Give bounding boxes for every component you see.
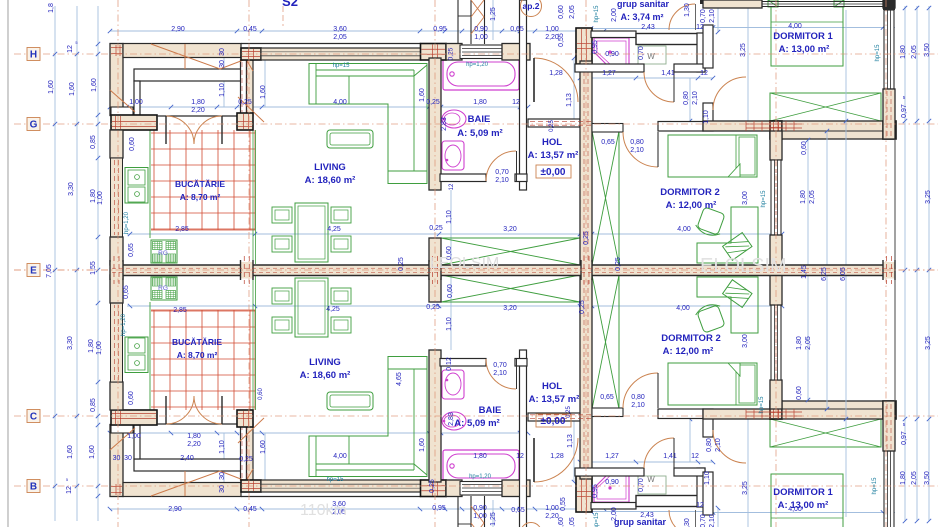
svg-text:2,20: 2,20 [545, 513, 559, 520]
svg-text:2,10: 2,10 [709, 9, 716, 23]
svg-text:2,00: 2,00 [611, 507, 618, 521]
svg-text:A: 12,00 m²: A: 12,00 m² [666, 200, 717, 211]
svg-text:0,60: 0,60 [801, 141, 808, 155]
svg-text:1,10: 1,10 [219, 440, 226, 454]
svg-text:0,90: 0,90 [473, 505, 487, 512]
svg-text:3,25: 3,25 [740, 43, 747, 57]
svg-text:2,05: 2,05 [333, 34, 347, 41]
svg-text:0,80: 0,80 [631, 394, 645, 401]
svg-text:1,80: 1,80 [191, 99, 205, 106]
svg-text:G: G [30, 120, 38, 131]
svg-text:1,00: 1,00 [127, 433, 141, 440]
svg-text:BUCĂTĂRIE: BUCĂTĂRIE [172, 337, 222, 347]
svg-text:0,25: 0,25 [239, 456, 253, 463]
svg-text:1,13: 1,13 [567, 434, 574, 448]
svg-text:3,50: 3,50 [924, 471, 931, 485]
svg-text:3,20: 3,20 [503, 226, 517, 233]
svg-text:0,70: 0,70 [638, 46, 645, 60]
svg-text:1,60: 1,60 [48, 80, 55, 94]
svg-text:1,28: 1,28 [549, 70, 563, 77]
svg-text:1,25: 1,25 [490, 7, 497, 21]
svg-text:2,05: 2,05 [911, 45, 918, 59]
svg-text:2,90: 2,90 [171, 26, 185, 33]
svg-text:0,65: 0,65 [601, 139, 615, 146]
svg-text:1,80: 1,80 [800, 190, 807, 204]
svg-text:0,60: 0,60 [447, 284, 454, 298]
svg-text:1,80: 1,80 [900, 471, 907, 485]
svg-text:3,30: 3,30 [68, 182, 75, 196]
svg-text:±0,00: ±0,00 [541, 416, 566, 427]
svg-text:0,65: 0,65 [600, 394, 614, 401]
svg-text:0,25: 0,25 [448, 47, 455, 60]
svg-text:hp=15: hp=15 [759, 396, 765, 414]
svg-text:1,28: 1,28 [550, 453, 564, 460]
svg-text:RG: RG [158, 285, 168, 292]
svg-text:30: 30 [124, 455, 132, 462]
svg-text:12: 12 [449, 183, 455, 190]
svg-text:0,25: 0,25 [615, 257, 622, 271]
svg-text:12: 12 [696, 502, 704, 509]
svg-text:2,85: 2,85 [175, 226, 189, 233]
svg-text:1,00: 1,00 [473, 513, 487, 520]
svg-text:3,00: 3,00 [742, 191, 749, 205]
svg-text:2,10: 2,10 [715, 438, 722, 452]
svg-text:0,65: 0,65 [123, 285, 130, 299]
svg-text:0,25: 0,25 [238, 99, 252, 106]
svg-text:1,55: 1,55 [90, 261, 97, 275]
svg-text:B: B [30, 482, 37, 493]
svg-text:0,65: 0,65 [510, 26, 524, 33]
svg-text:0,55: 0,55 [558, 33, 565, 47]
svg-text:1,60: 1,60 [67, 445, 74, 459]
svg-text:hp=1,20: hp=1,20 [121, 313, 127, 336]
svg-text:1,10: 1,10 [703, 110, 710, 124]
svg-text:2,10: 2,10 [493, 370, 507, 377]
svg-text:1,60: 1,60 [260, 440, 267, 454]
svg-text:1,60: 1,60 [419, 88, 426, 102]
svg-text:12: 12 [67, 45, 74, 53]
svg-text:7,05: 7,05 [46, 264, 53, 278]
svg-text:E: E [30, 266, 37, 277]
svg-text:0,25: 0,25 [429, 225, 443, 232]
svg-text:3,00: 3,00 [742, 334, 749, 348]
svg-text:RG: RG [158, 250, 168, 257]
svg-text:1,80: 1,80 [473, 453, 487, 460]
svg-text:hp=15: hp=15 [333, 63, 351, 69]
svg-text:12: 12 [66, 486, 73, 494]
svg-text:30: 30 [219, 60, 226, 68]
svg-text:4,00: 4,00 [788, 23, 802, 30]
svg-text:1,00: 1,00 [545, 505, 559, 512]
svg-text:1,80: 1,80 [796, 336, 803, 350]
svg-text:30: 30 [113, 455, 121, 462]
svg-text:0,25: 0,25 [426, 304, 440, 311]
svg-text:0,80: 0,80 [706, 438, 713, 452]
svg-text:0,95: 0,95 [592, 484, 599, 498]
svg-text:3,50: 3,50 [924, 43, 931, 57]
svg-text:DORMITOR 2: DORMITOR 2 [661, 333, 720, 344]
svg-text:hp=15: hp=15 [872, 477, 878, 495]
svg-text:0,60: 0,60 [558, 517, 565, 527]
svg-text:2,90: 2,90 [168, 506, 182, 513]
svg-text:1,27: 1,27 [605, 453, 619, 460]
svg-text:LIVING: LIVING [309, 357, 341, 368]
svg-text:0,55: 0,55 [560, 497, 567, 511]
svg-text:0,90: 0,90 [605, 479, 619, 486]
svg-text:0,70: 0,70 [495, 169, 509, 176]
svg-text:4,65: 4,65 [396, 372, 403, 386]
svg-text:1,80: 1,80 [187, 433, 201, 440]
svg-text:A: 18,60 m²: A: 18,60 m² [300, 370, 351, 381]
svg-text:3,25: 3,25 [742, 481, 749, 495]
svg-text:2,10: 2,10 [709, 514, 716, 527]
svg-text:2,40: 2,40 [180, 455, 194, 462]
svg-text:0,95: 0,95 [592, 40, 599, 54]
svg-text:A: 5,09 m²: A: 5,09 m² [454, 418, 499, 429]
svg-text:2,10: 2,10 [692, 91, 699, 105]
svg-text:1,80: 1,80 [900, 45, 907, 59]
svg-text:0,25: 0,25 [429, 479, 436, 493]
svg-text:hp=15: hp=15 [875, 44, 881, 62]
svg-text:ELOLSIM: ELOLSIM [700, 255, 787, 277]
svg-text:A: 3,74 m²: A: 3,74 m² [620, 12, 663, 22]
svg-text:1,27: 1,27 [602, 70, 616, 77]
svg-text:A: 8,70 m²: A: 8,70 m² [180, 192, 221, 202]
svg-text:1,10: 1,10 [446, 317, 453, 331]
svg-text:2,83: 2,83 [441, 117, 448, 131]
svg-text:hp=15: hp=15 [594, 5, 600, 23]
svg-text:0,97: 0,97 [901, 431, 908, 445]
svg-text:grup sanitar: grup sanitar [617, 0, 670, 9]
svg-text:1,00: 1,00 [545, 26, 559, 33]
svg-text:3,25: 3,25 [925, 190, 932, 204]
svg-text:A: 13,57 m²: A: 13,57 m² [529, 394, 580, 405]
svg-text:S2: S2 [282, 0, 298, 9]
svg-text:1,60: 1,60 [260, 85, 267, 99]
svg-text:0,95: 0,95 [432, 505, 446, 512]
svg-text:BAIE: BAIE [468, 114, 491, 125]
svg-text:2,20: 2,20 [191, 107, 205, 114]
svg-text:A: 8,70 m²: A: 8,70 m² [177, 350, 218, 360]
svg-text:C: C [30, 412, 37, 423]
svg-text:12: 12 [691, 453, 699, 460]
svg-text:1,00: 1,00 [129, 99, 143, 106]
svg-text:4,00: 4,00 [676, 305, 690, 312]
svg-text:2,85: 2,85 [173, 307, 187, 314]
svg-text:2,43: 2,43 [641, 24, 655, 31]
svg-text:2,05: 2,05 [805, 336, 812, 350]
svg-text:A: 18,60 m²: A: 18,60 m² [305, 175, 356, 186]
svg-text:1,25: 1,25 [490, 512, 497, 526]
svg-text:1,10: 1,10 [219, 83, 226, 97]
svg-text:6,25: 6,25 [821, 267, 828, 281]
svg-text:1,41: 1,41 [663, 453, 677, 460]
svg-text:4,25: 4,25 [327, 226, 341, 233]
svg-text:3,30: 3,30 [67, 336, 74, 350]
svg-text:3,60: 3,60 [333, 26, 347, 33]
svg-text:30: 30 [219, 472, 226, 480]
svg-text:0,85: 0,85 [90, 398, 97, 412]
svg-text:0,80: 0,80 [630, 139, 644, 146]
svg-text:12: 12 [516, 453, 524, 460]
svg-text:0,70: 0,70 [493, 362, 507, 369]
svg-text:12: 12 [512, 99, 520, 106]
svg-text:4,00: 4,00 [677, 226, 691, 233]
svg-text:W: W [647, 475, 655, 484]
svg-text:0,70: 0,70 [700, 514, 707, 527]
svg-text:1,41: 1,41 [661, 70, 675, 77]
svg-text:1,60: 1,60 [419, 438, 426, 452]
svg-text:HOL: HOL [542, 137, 562, 148]
svg-text:2,05: 2,05 [911, 471, 918, 485]
svg-text:0,25: 0,25 [579, 300, 586, 314]
svg-text:2,05: 2,05 [809, 190, 816, 204]
svg-text:0,90: 0,90 [474, 26, 488, 33]
svg-text:±0,00: ±0,00 [541, 167, 566, 178]
svg-text:1,80: 1,80 [88, 339, 95, 353]
svg-text:0,65: 0,65 [511, 507, 525, 514]
svg-text:0,60: 0,60 [258, 388, 264, 400]
svg-text:hp=1,20: hp=1,20 [469, 474, 492, 480]
svg-text:3,25: 3,25 [925, 336, 932, 350]
svg-text:2,20: 2,20 [545, 34, 559, 41]
svg-text:2,10: 2,10 [495, 177, 509, 184]
svg-text:0,60: 0,60 [129, 137, 136, 151]
svg-text:LEOLSIM: LEOLSIM [430, 255, 499, 272]
svg-text:BAIE: BAIE [479, 405, 502, 416]
svg-text:1,30: 1,30 [684, 3, 691, 17]
svg-text:4,00: 4,00 [788, 506, 802, 513]
svg-text:2,05: 2,05 [569, 5, 576, 19]
svg-text:hp=15: hp=15 [327, 477, 345, 483]
svg-text:HOL: HOL [542, 381, 562, 392]
svg-text:2,05: 2,05 [569, 517, 576, 527]
svg-text:grup sanitar: grup sanitar [614, 517, 667, 527]
svg-text:2,20: 2,20 [187, 441, 201, 448]
svg-text:DORMITOR 1: DORMITOR 1 [773, 31, 833, 42]
svg-text:0,25: 0,25 [398, 257, 405, 271]
svg-text:30: 30 [219, 48, 226, 56]
svg-text:0,65: 0,65 [128, 243, 135, 257]
svg-text:2,10: 2,10 [630, 147, 644, 154]
svg-text:0,25: 0,25 [549, 120, 555, 132]
svg-text:1,13: 1,13 [566, 93, 573, 107]
svg-text:DORMITOR 2: DORMITOR 2 [660, 187, 719, 198]
svg-text:30: 30 [219, 485, 226, 493]
svg-text:1,80: 1,80 [90, 189, 97, 203]
svg-text:hp=15: hp=15 [594, 512, 600, 527]
svg-text:A: 13,00 m²: A: 13,00 m² [779, 44, 830, 55]
svg-text:1,8: 1,8 [48, 3, 55, 13]
svg-text:0,70: 0,70 [700, 9, 707, 23]
svg-text:0,95: 0,95 [433, 26, 447, 33]
svg-text:1,80: 1,80 [473, 99, 487, 106]
svg-text:1,60: 1,60 [91, 78, 98, 92]
svg-text:W: W [647, 52, 655, 61]
svg-text:1,00: 1,00 [97, 191, 104, 205]
svg-text:A: 13,57 m²: A: 13,57 m² [528, 150, 579, 161]
svg-text:A: 13,00 m²: A: 13,00 m² [778, 500, 829, 511]
svg-text:LIVING: LIVING [314, 162, 346, 173]
svg-text:0,45: 0,45 [243, 506, 257, 513]
svg-text:hp=1,20: hp=1,20 [466, 62, 489, 68]
svg-text:1,00: 1,00 [96, 341, 103, 355]
svg-text:0,60: 0,60 [128, 391, 135, 405]
svg-text:ap.2: ap.2 [522, 1, 539, 11]
svg-text:0,97: 0,97 [901, 104, 908, 118]
svg-text:1,10: 1,10 [446, 210, 453, 224]
svg-text:4,00: 4,00 [333, 453, 347, 460]
svg-text:1,60: 1,60 [89, 445, 96, 459]
svg-text:hp=15: hp=15 [761, 190, 767, 208]
svg-text:12: 12 [700, 70, 708, 77]
svg-text:4,00: 4,00 [333, 99, 347, 106]
svg-text:2,83: 2,83 [448, 412, 455, 426]
svg-text:110km: 110km [300, 502, 347, 519]
svg-text:1,10: 1,10 [704, 471, 711, 485]
svg-text:0,45: 0,45 [243, 26, 257, 33]
svg-text:A: 5,09 m²: A: 5,09 m² [457, 128, 502, 139]
svg-text:1,00: 1,00 [474, 34, 488, 41]
svg-text:0,25: 0,25 [566, 406, 572, 418]
svg-text:1,30: 1,30 [684, 518, 691, 527]
svg-text:A: 12,00 m²: A: 12,00 m² [663, 346, 714, 357]
svg-text:0,60: 0,60 [796, 386, 803, 400]
svg-text:BUCĂTĂRIE: BUCĂTĂRIE [175, 179, 225, 189]
svg-text:3,20: 3,20 [503, 305, 517, 312]
svg-text:2,00: 2,00 [611, 8, 618, 22]
svg-text:0,90: 0,90 [605, 51, 619, 58]
svg-text:1,60: 1,60 [69, 82, 76, 96]
svg-text:0,80: 0,80 [683, 91, 690, 105]
svg-text:4,25: 4,25 [326, 306, 340, 313]
svg-text:1,45: 1,45 [801, 265, 808, 279]
svg-text:0,60: 0,60 [558, 5, 565, 19]
svg-text:hp=1,20: hp=1,20 [124, 211, 130, 234]
svg-text:0,25: 0,25 [426, 99, 440, 106]
svg-text:2,10: 2,10 [631, 402, 645, 409]
svg-text:0,85: 0,85 [90, 135, 97, 149]
svg-text:12: 12 [696, 24, 704, 31]
svg-text:0,70: 0,70 [638, 478, 645, 492]
svg-text:0,25: 0,25 [583, 231, 590, 245]
svg-text:H: H [30, 50, 37, 61]
svg-text:DORMITOR 1: DORMITOR 1 [773, 487, 833, 498]
svg-text:0,12: 0,12 [446, 357, 453, 371]
svg-text:6,05: 6,05 [840, 267, 847, 281]
